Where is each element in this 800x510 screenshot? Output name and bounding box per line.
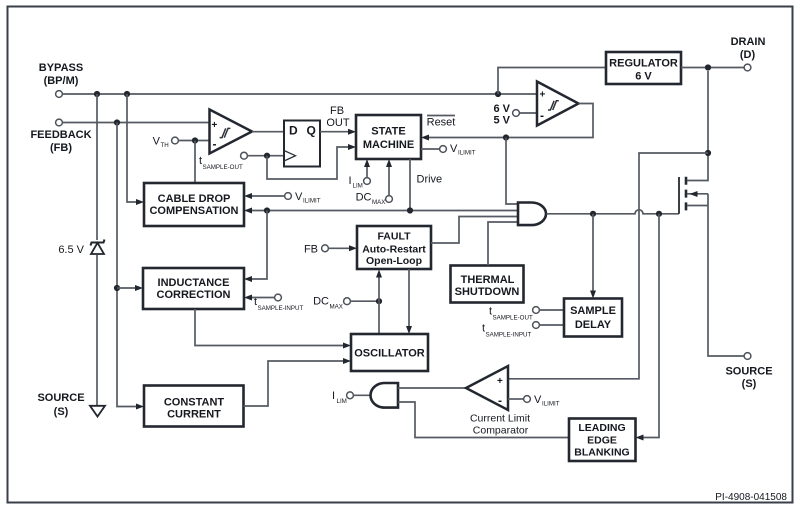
svg-text:DC: DC (313, 296, 329, 308)
svg-text:CORRECTION: CORRECTION (157, 289, 231, 301)
wire drain sense branch to current limit comparator (508, 153, 708, 379)
label FB OUT (326, 105, 350, 129)
block REGULATOR 6 V (606, 52, 681, 84)
svg-text:LIM: LIM (353, 183, 363, 190)
node t_SAMPLE-INPUT to sample delay (482, 322, 564, 339)
svg-text:(BP/M): (BP/M) (44, 75, 79, 87)
wire AND branch down to sample delay (590, 214, 596, 299)
svg-text:BYPASS: BYPASS (39, 62, 83, 74)
svg-text:6 V: 6 V (635, 71, 652, 83)
svg-text:Drive: Drive (417, 174, 443, 186)
wire clock to flip-flop and state machine (247, 144, 356, 179)
svg-text:5 V: 5 V (493, 115, 510, 127)
svg-text:EDGE: EDGE (587, 435, 617, 447)
op-amp U6 current limit comparator (466, 366, 508, 410)
svg-text:+: + (212, 120, 218, 131)
svg-text:Q: Q (307, 124, 316, 138)
svg-text:I: I (332, 390, 335, 402)
wire reset branch to AND gate (506, 138, 518, 205)
wire fault output to AND gate (431, 217, 518, 244)
wire comparator output to state machine Reset (421, 104, 593, 141)
wire bypass branch down to zener and source ground (96, 94, 98, 240)
svg-text:SAMPLE-INPUT: SAMPLE-INPUT (258, 305, 304, 312)
node V_ILIMIT state machine output (421, 143, 476, 157)
wire feedback branch down (114, 123, 144, 410)
svg-text:DELAY: DELAY (575, 319, 612, 331)
svg-text:V: V (450, 143, 458, 155)
node DC_MAX to fault/oscillator (313, 296, 382, 311)
ground symbol (left SOURCE) (37, 392, 105, 418)
svg-text:SOURCE: SOURCE (725, 366, 772, 378)
svg-text:+: + (497, 376, 503, 387)
svg-text:V: V (295, 191, 303, 203)
svg-text:CABLE DROP: CABLE DROP (158, 193, 231, 205)
svg-text:STATE: STATE (371, 126, 405, 138)
pin DRAIN (D) (731, 36, 766, 71)
svg-text:COMPENSATION: COMPENSATION (149, 205, 238, 217)
node t_SAMPLE-INPUT to inductance correction (244, 294, 303, 312)
op-amp U3 bypass comparator (537, 82, 579, 126)
flip-flop U2 D/Q (284, 121, 320, 167)
wire Q output to state machine (320, 129, 356, 135)
svg-text:-: - (540, 109, 544, 123)
wire current limit comparator output to AND gate (398, 387, 466, 389)
svg-text:MAX: MAX (330, 304, 343, 311)
node FB to fault block (304, 244, 357, 256)
wire bypass branch to cable drop compensation (127, 94, 144, 205)
block CABLE DROP COMPENSATION (144, 183, 244, 226)
svg-text:Current Limit: Current Limit (470, 413, 530, 425)
svg-text:6 V: 6 V (493, 103, 510, 115)
block SAMPLE DELAY (564, 299, 622, 337)
svg-text:CURRENT: CURRENT (167, 409, 221, 421)
svg-text:Open-Loop: Open-Loop (366, 255, 422, 267)
svg-text:PI-4908-041508: PI-4908-041508 (715, 492, 787, 503)
svg-text:FB: FB (304, 244, 318, 256)
svg-text:THERMAL: THERMAL (461, 274, 515, 286)
svg-text:Reset: Reset (427, 117, 456, 129)
svg-text:(S): (S) (54, 406, 69, 418)
svg-text:BLANKING: BLANKING (574, 447, 629, 459)
svg-text:FAULT: FAULT (377, 231, 411, 243)
svg-text:TH: TH (161, 142, 169, 149)
svg-text:SAMPLE-INPUT: SAMPLE-INPUT (486, 332, 532, 339)
wire constant current output to oscillator (244, 358, 352, 406)
svg-text:6.5 V: 6.5 V (58, 244, 84, 256)
svg-text:V: V (534, 394, 542, 406)
node DC_MAX state machine input (356, 159, 393, 206)
node V_ILIMIT to current limit comparator (508, 394, 560, 408)
svg-text:OUT: OUT (326, 117, 350, 129)
AND gate U5 (mirrored) (371, 383, 399, 408)
svg-text:SAMPLE-OUT: SAMPLE-OUT (493, 315, 533, 322)
node clock input (241, 152, 248, 159)
wire V_TH to comparator minus input (178, 137, 209, 143)
node V_TH (153, 136, 179, 150)
block CONSTANT CURRENT (144, 386, 244, 427)
wire oscillator to fault (arrow up) (376, 270, 382, 335)
block OSCILLATOR (351, 334, 428, 371)
node t_SAMPLE-OUT to sample delay (489, 306, 564, 322)
svg-text:LIM: LIM (337, 398, 347, 405)
block THERMAL SHUTDOWN (451, 266, 524, 303)
node 6V/5V comparator input (493, 103, 537, 127)
svg-text:Comparator: Comparator (473, 425, 529, 437)
wire feedback branch to inductance correction (117, 285, 143, 291)
svg-text:I: I (348, 175, 351, 187)
wire V_TH branch to cable drop compensation top (194, 141, 196, 184)
wire BYPASS rail (62, 91, 537, 97)
wire drive line from state machine to AND gate and cable drop (244, 159, 518, 214)
pin BYPASS (BP/M) (39, 62, 83, 97)
transistor Q1 power MOSFET (679, 71, 711, 214)
svg-text:+: + (540, 90, 546, 101)
svg-text:LEADING: LEADING (578, 422, 625, 434)
svg-text:SAMPLE-OUT: SAMPLE-OUT (203, 164, 243, 171)
zener diode 6.5 V (58, 240, 104, 406)
svg-text:DC: DC (356, 192, 372, 204)
svg-text:ILIMIT: ILIMIT (303, 198, 321, 205)
wire AND branch down to leading edge blanking (636, 214, 660, 441)
wire fault to oscillator (arrow down) (406, 269, 412, 334)
wire drive branch to inductance correction (244, 211, 267, 283)
label Current Limit Comparator (470, 413, 530, 437)
wire leading edge blanking to AND gate (398, 402, 569, 438)
label t_SAMPLE-OUT (199, 155, 243, 171)
wire AND output to MOSFET gate (547, 210, 680, 217)
svg-text:MACHINE: MACHINE (363, 139, 414, 151)
svg-text:DRAIN: DRAIN (731, 36, 766, 48)
pin FEEDBACK (FB) (30, 119, 91, 154)
block LEADING EDGE BLANKING (569, 419, 636, 462)
svg-text:V: V (153, 136, 161, 148)
svg-text:CONSTANT: CONSTANT (164, 397, 225, 409)
svg-text:INDUCTANCE: INDUCTANCE (158, 277, 230, 289)
wire thermal shutdown to AND gate (488, 222, 518, 266)
node V_ILIMIT to cable drop compensation (244, 191, 321, 205)
node I_LIM state machine input (348, 159, 370, 190)
block INDUCTANCE CORRECTION (143, 268, 244, 309)
svg-text:SOURCE: SOURCE (37, 392, 84, 404)
block STATE MACHINE (356, 115, 421, 159)
wire regulator to drain pin (681, 64, 744, 70)
svg-text:SAMPLE: SAMPLE (570, 305, 616, 317)
wire FEEDBACK rail (62, 119, 209, 125)
svg-text:FB: FB (330, 105, 344, 117)
svg-text:ILIMIT: ILIMIT (542, 401, 560, 408)
svg-text:ILIMIT: ILIMIT (458, 150, 476, 157)
wire bypass rail to regulator (498, 68, 606, 95)
svg-text:D: D (289, 124, 298, 138)
svg-text:(D): (D) (740, 49, 756, 61)
wire comparator output to D flip-flop (252, 131, 284, 133)
wire inductance correction output to oscillator (195, 309, 351, 349)
block FAULT Auto-Restart Open-Loop (357, 226, 431, 269)
svg-text:(FB): (FB) (50, 142, 72, 154)
svg-text:(S): (S) (742, 378, 757, 390)
label Reset (active low) (427, 116, 456, 129)
svg-text:Auto-Restart: Auto-Restart (362, 244, 426, 256)
svg-text:MAX: MAX (372, 199, 385, 206)
node I_LIM output of AND gate (332, 390, 371, 405)
svg-text:FEEDBACK: FEEDBACK (30, 129, 91, 141)
pin SOURCE (S) right (725, 353, 772, 390)
svg-text:REGULATOR: REGULATOR (609, 58, 678, 70)
svg-text:SHUTDOWN: SHUTDOWN (455, 286, 520, 298)
svg-text:-: - (213, 137, 217, 151)
AND gate U4 (518, 203, 546, 226)
wire mosfet source down to source pin (708, 206, 744, 357)
svg-text:-: - (498, 394, 502, 408)
svg-text:OSCILLATOR: OSCILLATOR (354, 348, 425, 360)
op-amp U1 feedback comparator (210, 110, 253, 154)
